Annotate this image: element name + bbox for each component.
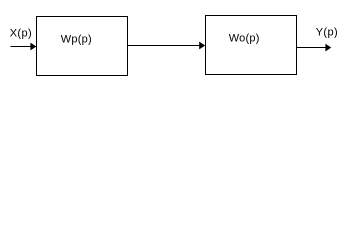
- svg-text:X(p): X(p): [10, 28, 32, 40]
- wire input X: [11, 46, 32, 47]
- block U2 Wo: [206, 16, 297, 75]
- svg-text:Wp(p): Wp(p): [61, 34, 92, 46]
- wire output Y: [297, 47, 327, 48]
- svg-text:Y(p): Y(p): [316, 27, 338, 39]
- svg-text:Wo(p): Wo(p): [229, 33, 260, 45]
- arrowhead input: [30, 43, 36, 51]
- wire middle: [128, 45, 200, 46]
- arrowhead output: [325, 44, 331, 52]
- block U1 Wp: [37, 17, 128, 76]
- arrowhead middle: [199, 42, 205, 50]
